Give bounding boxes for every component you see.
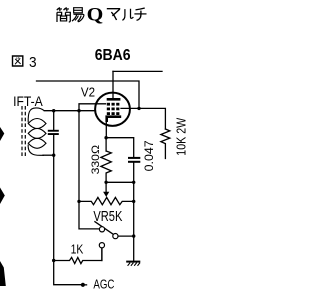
svg-text:10K 2W: 10K 2W <box>173 117 188 156</box>
svg-text:VR5K: VR5K <box>93 208 122 225</box>
svg-text:1K: 1K <box>71 242 84 256</box>
svg-text:330Ω: 330Ω <box>89 145 101 175</box>
svg-text:6BA6: 6BA6 <box>95 48 131 65</box>
svg-text:IFT-A: IFT-A <box>13 93 43 109</box>
svg-text:Q: Q <box>87 5 104 26</box>
svg-text:AGC: AGC <box>93 278 114 291</box>
svg-text:0.047: 0.047 <box>142 140 155 171</box>
svg-text:3: 3 <box>29 54 37 70</box>
svg-text:V2: V2 <box>81 85 95 100</box>
